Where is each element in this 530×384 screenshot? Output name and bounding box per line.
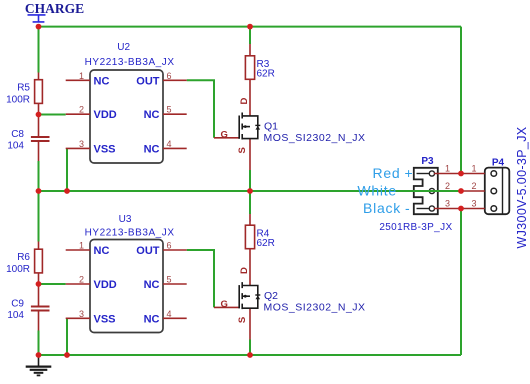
- wire U2 OUT to Q1 gate: [187, 80, 214, 138]
- svg-text:2: 2: [79, 275, 84, 285]
- resistor R4: [245, 214, 274, 285]
- wire U3 VDD: [39, 283, 66, 285]
- junction node Q2 source bottom: [247, 352, 253, 358]
- svg-text:G: G: [221, 129, 228, 140]
- wire U2 VDD: [39, 114, 66, 116]
- wire right vertical upper: [460, 27, 462, 174]
- wire R3 top stub: [249, 27, 251, 44]
- svg-text:White: White: [357, 183, 397, 199]
- svg-text:VDD: VDD: [94, 109, 117, 121]
- svg-text:Red+: Red+: [373, 165, 414, 181]
- wire top rail: [39, 26, 462, 28]
- pin number labels P3/P4: [445, 164, 477, 209]
- svg-text:6: 6: [167, 241, 172, 251]
- IC U3: [66, 214, 187, 333]
- svg-text:2: 2: [79, 105, 84, 115]
- svg-text:3: 3: [471, 198, 476, 208]
- svg-text:D: D: [239, 267, 250, 274]
- svg-text:2: 2: [471, 181, 476, 191]
- svg-text:OUT: OUT: [136, 75, 160, 87]
- junction node R6/C9/VDD: [36, 281, 42, 287]
- svg-text:VSS: VSS: [94, 313, 116, 325]
- capacitor C9: [7, 299, 49, 331]
- junction node Q1 source / R4: [247, 188, 253, 194]
- junction node row2: [458, 188, 464, 194]
- svg-text:100R: 100R: [6, 94, 30, 105]
- svg-text:P4: P4: [492, 157, 505, 168]
- svg-text:S: S: [237, 317, 248, 323]
- junction node R5/C8/VDD: [36, 112, 42, 118]
- junction node U2 VSS: [64, 188, 70, 194]
- svg-text:4: 4: [167, 139, 172, 149]
- svg-text:R5: R5: [17, 83, 30, 94]
- svg-text:1: 1: [79, 71, 84, 81]
- svg-text:Q2: Q2: [264, 290, 278, 302]
- svg-text:NC: NC: [144, 109, 160, 121]
- junction node U3 VSS bottom: [64, 352, 70, 358]
- junction node row3: [458, 206, 464, 212]
- wire Q2 source lower: [249, 340, 251, 356]
- net label CHARGE: [25, 1, 84, 22]
- svg-text:CHARGE: CHARGE: [25, 1, 84, 16]
- svg-text:VDD: VDD: [94, 279, 117, 291]
- svg-text:NC: NC: [144, 143, 160, 155]
- junction node ground: [36, 352, 42, 358]
- junction node CHARGE corner: [36, 24, 42, 30]
- wire bottom rail: [39, 354, 462, 356]
- resistor R5: [6, 73, 42, 137]
- svg-text:1: 1: [445, 164, 450, 174]
- wire U3 VSS riser: [66, 318, 68, 355]
- svg-text:62R: 62R: [257, 238, 275, 249]
- svg-text:NC: NC: [94, 245, 110, 257]
- svg-text:3: 3: [79, 309, 84, 319]
- svg-text:5: 5: [167, 105, 172, 115]
- svg-text:HY2213-BB3A_JX: HY2213-BB3A_JX: [85, 228, 175, 239]
- wire mid rail: [39, 190, 462, 192]
- wire U2 VSS riser: [66, 148, 68, 191]
- svg-text:62R: 62R: [257, 69, 275, 80]
- wire P3 pin3 to P4: [434, 208, 485, 210]
- wire left C9 to bottom: [38, 331, 40, 356]
- svg-text:Q1: Q1: [264, 121, 278, 133]
- svg-text:HY2213-BB3A_JX: HY2213-BB3A_JX: [85, 57, 175, 68]
- svg-text:1: 1: [471, 164, 476, 174]
- svg-text:2: 2: [445, 181, 450, 191]
- transistor Q1: [214, 97, 366, 170]
- svg-text:NC: NC: [144, 279, 160, 291]
- svg-text:NC: NC: [94, 75, 110, 87]
- wire R4 top stub: [249, 191, 251, 214]
- svg-text:WJ300V-5.00-3P_JX: WJ300V-5.00-3P_JX: [515, 126, 529, 248]
- svg-text:1: 1: [79, 241, 84, 251]
- junction node R3 top: [247, 24, 253, 30]
- wire node to P4 pin2: [461, 190, 485, 192]
- wire right vertical lower: [460, 209, 462, 356]
- svg-text:104: 104: [7, 310, 24, 321]
- svg-text:C8: C8: [11, 129, 24, 140]
- svg-text:NC: NC: [144, 313, 160, 325]
- svg-text:R6: R6: [17, 252, 30, 263]
- transistor Q2: [214, 267, 366, 339]
- svg-text:3: 3: [79, 139, 84, 149]
- wire U3 OUT to Q2 gate: [187, 250, 214, 307]
- svg-text:2501RB-3P_JX: 2501RB-3P_JX: [379, 222, 452, 233]
- junction node row1: [458, 171, 464, 177]
- capacitor C8: [7, 129, 49, 161]
- svg-text:104: 104: [7, 140, 24, 151]
- svg-text:D: D: [239, 97, 250, 104]
- wire left top: [38, 27, 40, 73]
- connector P4: [485, 126, 529, 248]
- wire left C8 to mid: [38, 161, 40, 191]
- svg-text:100R: 100R: [6, 264, 30, 275]
- svg-text:3: 3: [445, 198, 450, 208]
- IC U2: [66, 42, 187, 163]
- svg-text:5: 5: [167, 275, 172, 285]
- wire left R6 upper: [38, 191, 40, 242]
- wire P3 pin1 to P4: [434, 173, 485, 175]
- svg-text:6: 6: [167, 71, 172, 81]
- connector P3: [379, 156, 452, 233]
- svg-text:VSS: VSS: [94, 143, 116, 155]
- svg-text:MOS_SI2302_N_JX: MOS_SI2302_N_JX: [264, 302, 366, 314]
- svg-text:C9: C9: [11, 299, 24, 310]
- svg-text:U2: U2: [117, 42, 130, 53]
- wire Q1 source lower: [249, 170, 251, 191]
- svg-text:U3: U3: [119, 214, 132, 225]
- svg-text:4: 4: [167, 309, 172, 319]
- junction node C8 bottom: [36, 188, 42, 194]
- svg-text:S: S: [237, 147, 248, 153]
- svg-text:MOS_SI2302_N_JX: MOS_SI2302_N_JX: [264, 132, 366, 144]
- resistor R3: [245, 44, 274, 116]
- svg-text:G: G: [221, 299, 228, 310]
- svg-text:OUT: OUT: [136, 245, 160, 257]
- resistor R6: [6, 242, 42, 306]
- svg-text:P3: P3: [421, 156, 434, 167]
- ground: [26, 355, 52, 375]
